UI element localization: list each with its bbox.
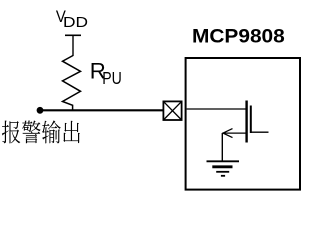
ground xyxy=(207,161,240,176)
IC body MCP9808 xyxy=(186,58,300,190)
label alert output (Chinese) xyxy=(2,120,80,143)
resistor RPU xyxy=(63,56,81,111)
wire: pin to transistor drain xyxy=(187,108,247,110)
label RPU xyxy=(90,59,122,89)
node: alert output junction dot xyxy=(37,107,44,114)
source wire with arrow xyxy=(222,132,246,134)
wire: alert output to pin xyxy=(40,109,164,111)
svg-text:MCP9808: MCP9808 xyxy=(192,26,285,47)
channel bar xyxy=(245,101,247,143)
label VDD xyxy=(56,9,88,31)
svg-text:DD: DD xyxy=(63,14,88,31)
gate bar xyxy=(250,106,252,134)
gate lead xyxy=(251,131,269,133)
power symbol VDD xyxy=(65,35,81,56)
transistor Q1 N-MOSFET open-drain xyxy=(222,101,268,161)
pin symbol (box with X) xyxy=(163,101,181,120)
svg-text:PU: PU xyxy=(102,70,122,89)
